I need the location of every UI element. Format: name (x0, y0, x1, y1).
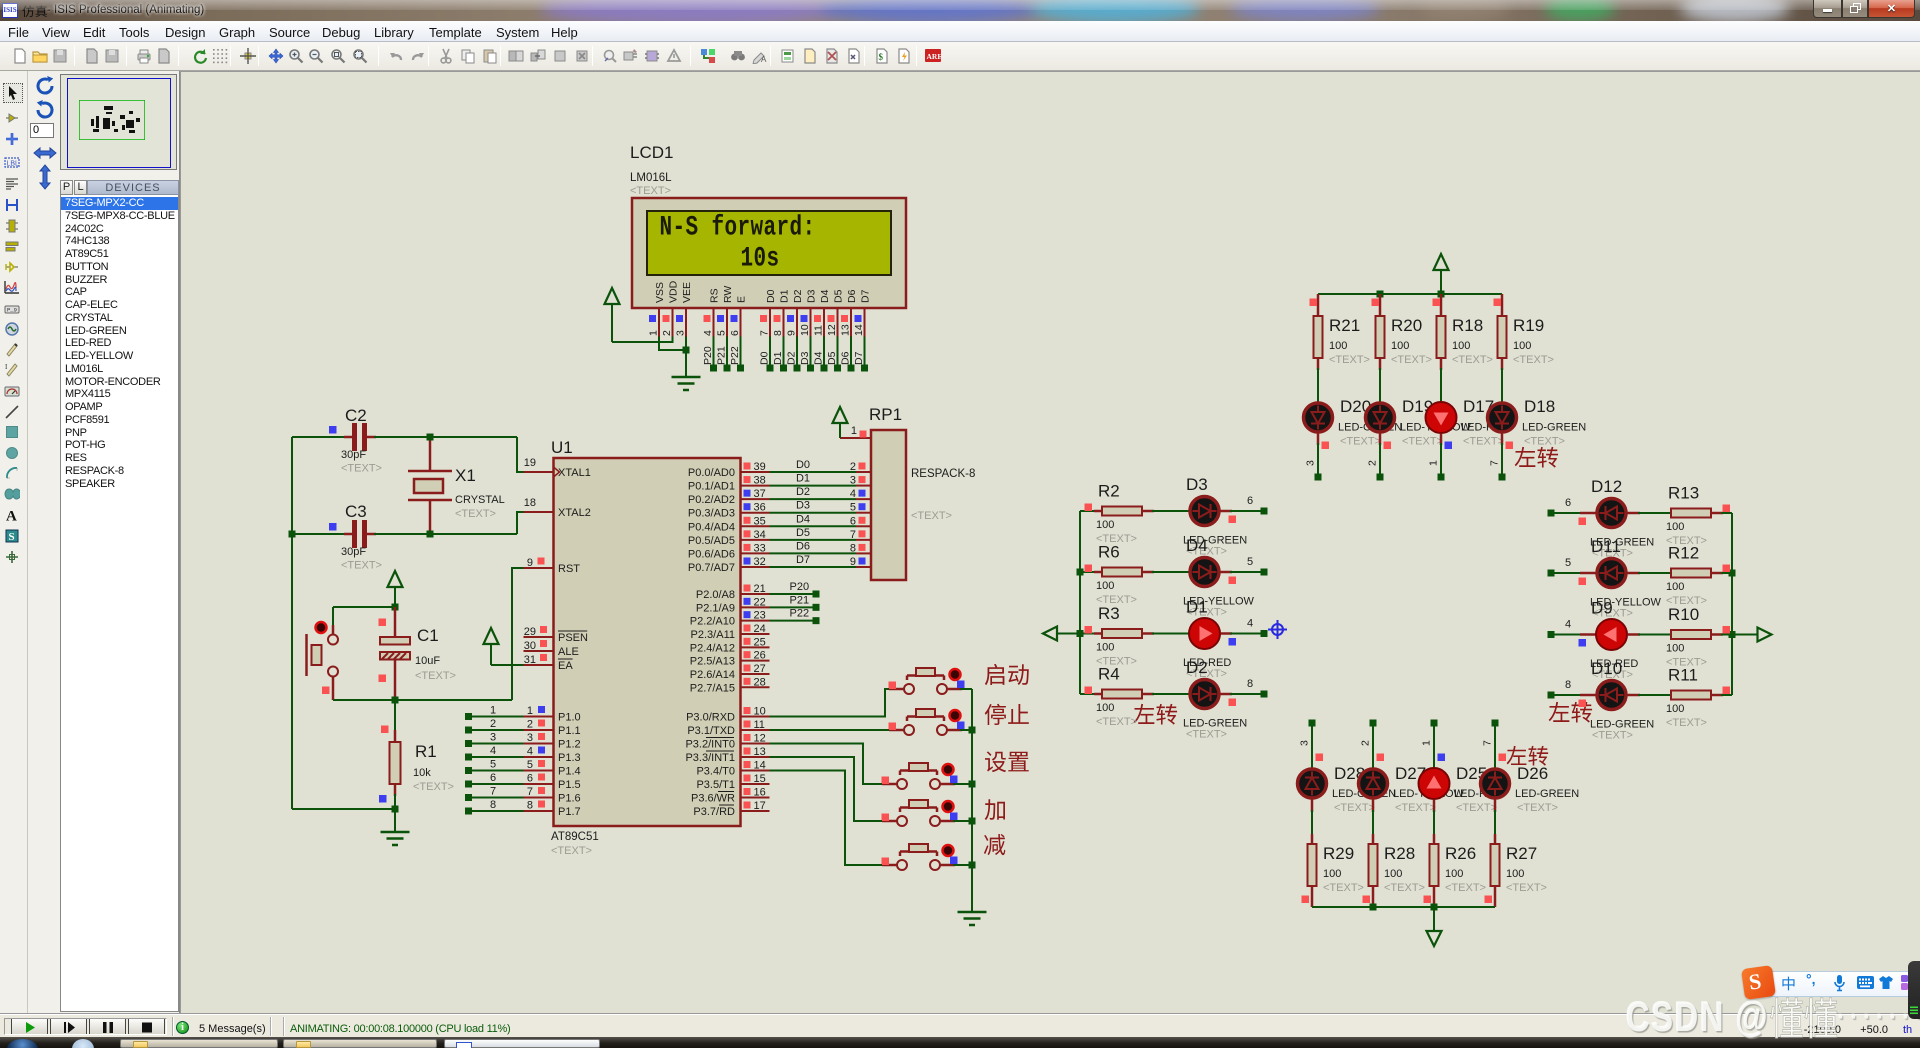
resistor R20 (1379, 294, 1382, 316)
LCD pin 4 state (704, 315, 711, 322)
LCD pin stub 6 (740, 308, 742, 337)
X1 body (414, 479, 443, 493)
U1 pin 39 P0.0/AD0 (741, 471, 770, 473)
U1 pin 22 P2.1/A9 (741, 606, 770, 608)
wire LCD D1 (783, 337, 785, 369)
wire LCD E (740, 337, 742, 369)
button bottom stub (332, 677, 335, 700)
LED D20 LED-GREEN (1317, 358, 1320, 370)
X1 top bar (408, 470, 452, 473)
U1 pin 27 P2.6/A14 (741, 673, 770, 675)
C3 right stub (367, 533, 376, 536)
power VCC arrow (reset) (388, 571, 403, 587)
wire power to RP1.1 (839, 423, 841, 438)
wire to ground (394, 809, 396, 832)
junction gnd (392, 806, 399, 813)
wire D4 to terminal net 5 (1221, 571, 1233, 574)
U1 pin 17 P3.7/RD (741, 810, 770, 812)
wire to XTAL2 (517, 512, 524, 534)
RP1 pin 3 (856, 485, 871, 487)
U1 pin 35 P0.4/AD4 (741, 525, 770, 527)
LED D3 LED-GREEN (1142, 510, 1154, 513)
svg-text:A: A (761, 55, 767, 64)
wire button STOP to bus (960, 729, 972, 731)
resistor R4 (1080, 693, 1102, 695)
wire P3.3 to PLUS (770, 757, 883, 821)
svg-text:ARES: ARES (927, 52, 942, 61)
RP1 body (871, 430, 906, 580)
LCD pin stub 12 (837, 308, 839, 337)
pushbutton STOP (904, 725, 914, 735)
terminal (767, 365, 774, 372)
wire LCD D3 (810, 337, 812, 369)
resistor R11 (1628, 694, 1641, 697)
junction bus (969, 862, 976, 869)
LCD pin stub 8 (783, 308, 785, 337)
LED D19 LED-YELLOW (1379, 358, 1382, 370)
X1 bottom stub (429, 500, 432, 534)
label turn-left west (1133, 703, 1178, 726)
button cap (312, 645, 322, 665)
wire C3 to XTAL2 (374, 533, 517, 535)
U1 pin 1 P1.0 (524, 716, 554, 718)
label MINUS (983, 833, 1006, 856)
U1 pin 10 P3.0/RXD (741, 716, 770, 718)
junction X1/XTAL2 wire (427, 531, 434, 538)
resistor R12 (1628, 572, 1641, 575)
RP1 pin 1 (840, 437, 871, 439)
ground arrow south (1427, 931, 1442, 946)
wire P21 (770, 606, 817, 608)
button plate (305, 634, 308, 676)
ground (reset) (381, 831, 410, 834)
LED D18 LED-GREEN (1501, 358, 1504, 370)
wire D19 to terminal net 2 (1379, 434, 1382, 446)
U1 pin 37 P0.2/AD2 (741, 498, 770, 500)
terminal (807, 365, 814, 372)
U1 pin 18 XTAL2 (524, 511, 554, 513)
wire P1.5 (471, 783, 524, 785)
U1 pin 9 RST (524, 567, 554, 569)
LCD pin stub 4 (713, 308, 715, 337)
mouse crosshair cursor (1268, 620, 1287, 639)
stub below resistor (1372, 886, 1375, 907)
terminal net 8 east (1548, 692, 1555, 699)
U1 pin 38 P0.1/AD1 (741, 485, 770, 487)
X1 top stub (429, 437, 432, 471)
terminal net 2 south (1370, 720, 1377, 727)
wire C3 left (292, 533, 352, 535)
svg-text:S: S (9, 531, 15, 543)
wire button MINUS to bus (953, 864, 972, 866)
junction R1 top (392, 697, 399, 704)
LED D4 LED-YELLOW (1142, 571, 1154, 574)
LED D10 LED-GREEN (1580, 694, 1596, 697)
terminal (848, 365, 855, 372)
RP1 pin 4 (856, 498, 871, 500)
power VCC arrow (LCD) (605, 288, 620, 304)
wire power stem (394, 587, 396, 607)
RP1 pin 9 (856, 566, 871, 568)
LED D11 LED-YELLOW (1580, 572, 1596, 575)
wire LCD D5 (837, 337, 839, 369)
wire west rail (1079, 511, 1081, 694)
wire P1.3 (471, 756, 524, 758)
wire to button (332, 607, 334, 634)
terminal arrow east (output) (1758, 628, 1772, 642)
U1 pin 31 EA (524, 664, 554, 666)
junction bus (969, 818, 976, 825)
resistor R10 (1628, 633, 1641, 636)
LCD pin 2 state (663, 315, 670, 322)
U1 pin 36 P0.3/AD3 (741, 512, 770, 514)
RP1 pin 2 (856, 471, 871, 473)
LCD pin stub 3 (685, 308, 687, 337)
R1 top state (381, 726, 389, 734)
terminal arrow west (input) (1043, 627, 1057, 641)
C1 bottom stub (394, 660, 397, 701)
U1 pin 23 P2.2/A10 (741, 620, 770, 622)
LCD pin 6 state (731, 315, 738, 322)
resistor R27 (1494, 800, 1497, 813)
terminal net 4 east (1548, 631, 1555, 638)
label turn-left south (1506, 745, 1549, 767)
wire VDD (612, 337, 673, 343)
junction left rail/C3 (289, 531, 296, 538)
label STOP (984, 703, 1030, 726)
wire LCD D2 (796, 337, 798, 369)
U1 pin 30 ALE (524, 650, 554, 652)
wire P3.0 to START (770, 689, 890, 717)
wire D3 to terminal net 6 (1221, 510, 1233, 513)
wire P22 (770, 620, 817, 622)
pushbutton SET (897, 779, 907, 789)
X1 bottom bar (408, 499, 452, 502)
C1 bottom state (379, 675, 387, 683)
wire D4 bus U1-RP1 (770, 525, 857, 527)
LCD pin stub 11 (823, 308, 825, 337)
LED D28 LED-GREEN (1298, 769, 1327, 798)
terminal (780, 365, 787, 372)
power VCC arrow (north) (1434, 254, 1449, 270)
U1 pin 32 P0.7/AD7 (741, 566, 770, 568)
resistor R6 (1080, 571, 1102, 573)
power VCC arrow (EA) (484, 628, 499, 644)
wire P3.4 to MINUS (770, 771, 883, 866)
U1 pin 8 P1.7 (524, 810, 554, 812)
wire north rail (1318, 293, 1502, 295)
wire VSS to VEE node (659, 337, 686, 351)
wire rail to arrow (1732, 634, 1758, 636)
wire to R1 (394, 700, 396, 742)
ground (buttons) (958, 911, 987, 914)
U1 pin 6 P1.5 (524, 783, 554, 785)
label turn-left north (1514, 446, 1559, 469)
wire LCD D4 (823, 337, 825, 369)
resistor R29 (1311, 800, 1314, 813)
resistor R26 (1433, 800, 1436, 813)
terminal (861, 365, 868, 372)
LCD pin 9 state (787, 315, 794, 322)
terminal net 5 east (1548, 570, 1555, 577)
wire D17 to terminal net 1 (1440, 434, 1443, 446)
resistor R13 (1628, 512, 1641, 515)
wire P1.7 (471, 810, 524, 812)
U1 pin 7 P1.6 (524, 797, 554, 799)
wire to gnd arrow (1433, 907, 1435, 931)
resistor R18 (1440, 294, 1443, 316)
terminal net 1 south (1431, 720, 1438, 727)
C2 state (329, 426, 337, 434)
wire EA (491, 664, 524, 666)
U1 pin 16 P3.6/WR (741, 797, 770, 799)
wire D6 bus U1-RP1 (770, 552, 857, 554)
wire P1.1 (471, 729, 524, 731)
R1 bottom stub (394, 784, 397, 796)
LCD pin 3 state (676, 315, 683, 322)
RP1 pin 8 (856, 552, 871, 554)
LCD pin stub 13 (850, 308, 852, 337)
ground (LCD) (672, 376, 701, 379)
LCD pin 13 state (841, 315, 848, 322)
LED D27 LED-YELLOW (1359, 769, 1388, 798)
terminal (821, 365, 828, 372)
LCD pin stub 2 (672, 308, 674, 337)
LCD pin stub 10 (810, 308, 812, 337)
terminal net 6 east (1548, 510, 1555, 517)
bus wire buttons common (971, 689, 973, 912)
pushbutton START (904, 684, 914, 694)
wire RST net (512, 568, 524, 700)
wire to XTAL1 (517, 437, 524, 472)
LCD1 body (632, 198, 906, 308)
terminal net 7 south (1492, 720, 1499, 727)
wire D0 bus U1-RP1 (770, 471, 857, 473)
wire power stem north (1440, 270, 1442, 294)
wire P20 (770, 593, 817, 595)
wire R1 bottom to rail (292, 808, 395, 810)
LCD pin stub 5 (726, 308, 728, 337)
svg-text:P_9: P_9 (7, 307, 17, 314)
terminal (794, 365, 801, 372)
wire LCD RW (726, 337, 728, 369)
R1 bottom state (379, 795, 387, 803)
svg-text:A: A (6, 509, 17, 524)
label PLUS (984, 798, 1007, 821)
resistor R21 (1317, 294, 1320, 316)
U1 pin 15 P3.5/T1 (741, 783, 770, 785)
LED D17 LED-RED (1440, 358, 1443, 370)
LCD1 screen (647, 211, 891, 275)
U1 pin 25 P2.4/A12 (741, 646, 770, 648)
label turn-left east (1548, 701, 1593, 724)
U1 pin 2 P1.1 (524, 729, 554, 731)
wire D7 bus U1-RP1 (770, 566, 857, 568)
wire button PLUS to bus (953, 820, 972, 822)
pushbutton PLUS (897, 816, 907, 826)
LCD pin 8 state (774, 315, 781, 322)
U1 pin 28 P2.7/A15 (741, 686, 770, 688)
LCD pin 1 state (649, 315, 656, 322)
wire D20 to terminal net 3 (1317, 434, 1320, 446)
wire power stem (611, 304, 613, 342)
LED D2 LED-GREEN (1142, 693, 1154, 696)
wire P1.0 (471, 716, 524, 718)
wire D18 to terminal net 7 (1501, 434, 1504, 446)
C3 state (329, 523, 337, 531)
U1 pin 11 P3.1/TXD (741, 729, 770, 731)
LCD pin stub 1 (658, 308, 660, 337)
junction VSS/VEE (683, 347, 690, 354)
LCD pin stub 9 (796, 308, 798, 337)
resistor R19 (1501, 294, 1504, 316)
LCD pin 11 state (814, 315, 821, 322)
wire EA stem (490, 644, 492, 665)
LED D12 LED-GREEN (1580, 512, 1596, 515)
U1 pin 21 P2.0/A8 (741, 593, 770, 595)
junction bus (969, 727, 976, 734)
resistor R28 (1372, 800, 1375, 813)
wire P3.2 to SET (770, 744, 883, 785)
power VCC arrow (RP1) (833, 407, 848, 423)
wire button/C1 bottom node (333, 699, 512, 701)
left rail wire C2/C3 to R1 bottom (291, 437, 293, 809)
svg-text:$: $ (879, 52, 884, 62)
LED D25 LED-RED (1419, 768, 1450, 799)
junction bus (969, 781, 976, 788)
U1 body (554, 458, 741, 826)
terminal net 3 south (1309, 720, 1316, 727)
U1 pin 29 PSEN (524, 636, 554, 638)
LCD pin 14 state (855, 315, 862, 322)
wire D1 to terminal net 4 (1221, 632, 1233, 635)
U1 pin 14 P3.4/T0 (741, 770, 770, 772)
U1 pin 34 P0.5/AD5 (741, 539, 770, 541)
wire south rail (1312, 906, 1495, 908)
LCD pin stub 14 (864, 308, 866, 337)
wire LCD D0 (769, 337, 771, 369)
wire P1.2 (471, 743, 524, 745)
C1 top plate (380, 637, 410, 645)
LCD pin stub 7 (769, 308, 771, 337)
wire LCD D7 (864, 337, 866, 369)
wire VEE down (685, 337, 687, 378)
resistor R2 (1080, 510, 1102, 512)
LCD pin 12 state (828, 315, 835, 322)
svg-text:I: I (5, 363, 8, 371)
wire D5 bus U1-RP1 (770, 539, 857, 541)
pushbutton MINUS (897, 860, 907, 870)
RP1 pin 5 (856, 512, 871, 514)
terminal (834, 365, 841, 372)
svg-text:LBL: LBL (7, 161, 20, 168)
wire arrow to rail (1057, 633, 1080, 635)
wire button top (333, 606, 395, 608)
LCD pin 5 state (717, 315, 724, 322)
U1 pin 12 P3.2/INT0 (741, 743, 770, 745)
junction X1/XTAL1 wire (427, 434, 434, 441)
LCD pin 7 state (760, 315, 767, 322)
wire D2 to terminal net 8 (1221, 693, 1233, 696)
terminal (737, 365, 744, 372)
wire C2 to XTAL1 (374, 436, 517, 438)
U1 pin 33 P0.6/AD6 (741, 552, 770, 554)
LED D1 LED-RED (1142, 632, 1154, 635)
wire D3 bus U1-RP1 (770, 512, 857, 514)
stub below resistor (1311, 886, 1314, 907)
stub below resistor (1494, 886, 1497, 907)
LED D26 LED-GREEN (1481, 769, 1510, 798)
wire LCD RS (713, 337, 715, 369)
LCD pin 10 state (801, 315, 808, 322)
LED D9 LED-RED (1580, 633, 1596, 636)
wire LCD D6 (850, 337, 852, 369)
junction C1 top (392, 604, 399, 611)
terminal (710, 365, 717, 372)
C1 bottom plate hatched (380, 652, 410, 660)
RP1 pin 7 (856, 539, 871, 541)
label START (984, 663, 1030, 686)
wire D2 bus U1-RP1 (770, 498, 857, 500)
U1 pin 13 P3.3/INT1 (741, 756, 770, 758)
wire P3.1 to STOP (770, 729, 890, 731)
wire button START to bus (960, 688, 972, 690)
U1 pin 26 P2.5/A13 (741, 660, 770, 662)
button state (322, 687, 330, 695)
wire D1 bus U1-RP1 (770, 485, 857, 487)
stub below resistor (1433, 886, 1436, 907)
C2 right stub (367, 436, 376, 439)
U1 pin 4 P1.3 (524, 756, 554, 758)
wire button SET to bus (953, 783, 972, 785)
label SET (984, 750, 1030, 773)
C1 top stub (394, 607, 397, 637)
U1 pin 19 XTAL1 (524, 471, 554, 473)
C1 top state (379, 619, 387, 627)
terminal (724, 365, 731, 372)
wire P1.4 (471, 770, 524, 772)
resistor R3 (1080, 633, 1102, 635)
U1 pin 3 P1.2 (524, 743, 554, 745)
wire C2 left (292, 436, 352, 438)
U1 pin 5 P1.4 (524, 770, 554, 772)
wire east rail (1731, 513, 1733, 695)
wire P1.6 (471, 797, 524, 799)
U1 pin 24 P2.3/A11 (741, 633, 770, 635)
RP1 pin 6 (856, 525, 871, 527)
